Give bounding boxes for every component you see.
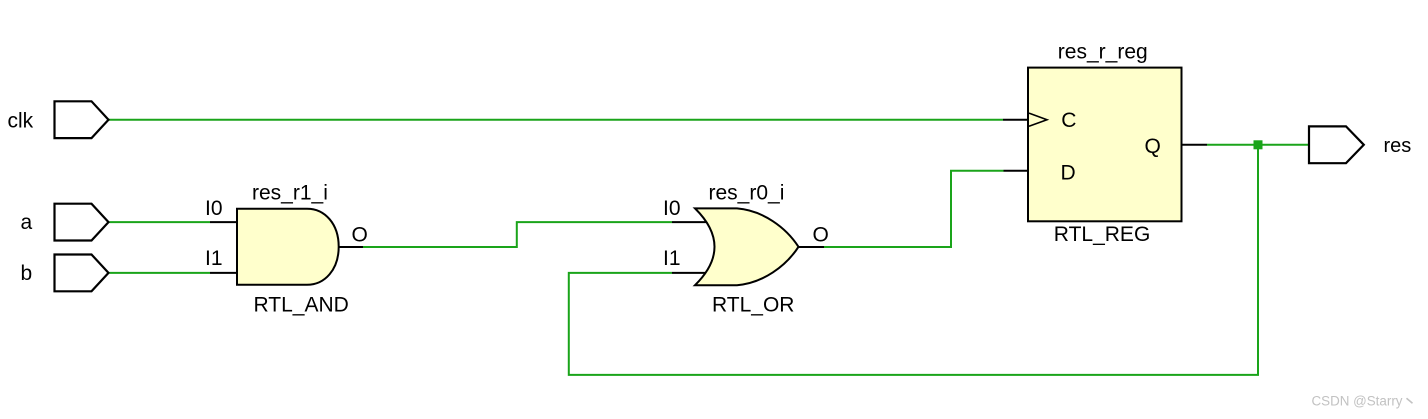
svg-text:b: b: [21, 262, 33, 285]
clock triangle on C pin: [1029, 113, 1047, 126]
wire b net horizontal: [110, 272, 211, 274]
svg-text:CSDN @Starry: CSDN @Starry: [1312, 393, 1403, 408]
wire a pin stub to AND I0: [210, 221, 238, 223]
wire res feedback net to OR I1: [569, 145, 1258, 375]
wire net AND O to OR I0: [363, 222, 672, 247]
register res_r_reg body: [1028, 68, 1182, 222]
svg-text:D: D: [1061, 161, 1076, 184]
or-gate res_r0_i: [695, 208, 799, 285]
wire OR output pin stub: [799, 246, 825, 248]
wire OR I0 pin stub: [672, 221, 706, 223]
svg-text:RTL_AND: RTL_AND: [254, 293, 349, 316]
port a: [55, 204, 109, 241]
wire OR I1 pin stub: [672, 272, 710, 274]
node junction on res net: [1254, 140, 1263, 149]
port clk: [55, 101, 109, 138]
wire clk pin stub to U1 C: [1003, 119, 1028, 121]
svg-text:res_r1_i: res_r1_i: [252, 181, 328, 204]
svg-text:res_r0_i: res_r0_i: [709, 181, 785, 204]
svg-text:O: O: [813, 223, 829, 246]
svg-text:C: C: [1061, 109, 1076, 132]
svg-text:RTL_REG: RTL_REG: [1054, 223, 1150, 246]
wire AND output pin stub: [339, 246, 363, 248]
svg-text:clk: clk: [8, 109, 34, 132]
wire b pin stub to AND I1: [210, 272, 238, 274]
wire register Q pin stub: [1182, 144, 1208, 146]
svg-text:O: O: [352, 223, 368, 246]
and-gate res_r1_i: [237, 209, 339, 285]
wire a net horizontal: [110, 221, 211, 223]
svg-text:I0: I0: [663, 197, 681, 220]
svg-text:I0: I0: [205, 197, 223, 220]
svg-text:a: a: [21, 211, 33, 234]
wire res net Q to output port: [1207, 144, 1309, 146]
svg-text:I1: I1: [205, 247, 223, 270]
wire register D pin stub: [1004, 170, 1029, 172]
svg-text:Q: Q: [1145, 135, 1161, 158]
svg-text:res_r_reg: res_r_reg: [1058, 40, 1148, 63]
wire net OR O to register D: [824, 171, 1004, 247]
port b: [55, 255, 109, 292]
port res (output): [1309, 126, 1364, 163]
svg-text:RTL_OR: RTL_OR: [712, 293, 794, 316]
wire clk net horizontal: [109, 119, 1004, 121]
watermark tick mark: [1407, 398, 1413, 403]
svg-text:res: res: [1384, 135, 1412, 157]
svg-text:I1: I1: [663, 247, 681, 270]
